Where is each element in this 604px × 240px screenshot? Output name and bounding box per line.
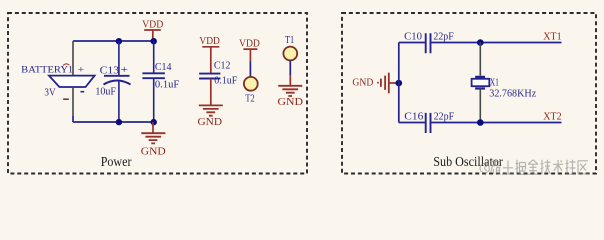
wire bottom rail (73, 121, 154, 123)
node junction C13 bottom (116, 119, 122, 125)
svg-text:32.768KHz: 32.768KHz (489, 88, 536, 100)
capacitor C12 lead bottom red (210, 79, 212, 106)
capacitor C14 lead top (153, 41, 155, 73)
ground GND (C12) (198, 105, 223, 128)
testpoint T1 pad (283, 47, 297, 61)
wire VDD to T2 (249, 62, 251, 78)
power port VDD (T2) (239, 38, 260, 62)
svg-text:T1: T1 (285, 35, 294, 46)
wire top right (431, 42, 561, 44)
svg-text:XT2: XT2 (543, 110, 561, 122)
svg-text:VDD: VDD (199, 35, 220, 47)
svg-text:C10: C10 (404, 30, 422, 42)
wire bottom right (431, 122, 561, 124)
crystal X1 body (472, 79, 490, 86)
crystal X1 pin bottom (479, 89, 481, 123)
sheet box Sub Oscillator (342, 13, 596, 174)
svg-text:GND: GND (141, 146, 166, 158)
svg-text:BATTERY1: BATTERY1 (21, 64, 73, 74)
svg-text:C14: C14 (155, 61, 172, 73)
svg-text:10uF: 10uF (95, 85, 116, 97)
svg-text:GND: GND (278, 96, 304, 108)
capacitor C14 lead bottom (153, 79, 155, 123)
svg-text:22pF: 22pF (433, 30, 453, 42)
svg-text:X1: X1 (490, 76, 499, 88)
capacitor C16 plates (426, 113, 431, 133)
svg-text:22pF: 22pF (434, 111, 454, 123)
svg-text:GND: GND (198, 116, 223, 128)
capacitor C12 plates (199, 74, 220, 79)
crystal X1 plates (475, 77, 485, 89)
wire left vertical (398, 43, 400, 123)
red squiggle marker (63, 64, 69, 66)
wire top left (399, 42, 425, 44)
svg-text:C12: C12 (214, 60, 231, 72)
battery pin bottom (72, 87, 74, 116)
ground GND (T1) (278, 76, 304, 108)
node junction crystal top (477, 39, 484, 46)
svg-text:Power: Power (101, 155, 132, 170)
battery G1 body (49, 76, 95, 87)
capacitor C10 plates (426, 33, 431, 53)
ground GND (main) (141, 122, 166, 158)
power port VDD (main) (142, 18, 163, 41)
capacitor C13 plates (104, 75, 130, 77)
power port GND (bar style) (352, 73, 398, 94)
battery second plate dash (63, 98, 69, 100)
wire bottom left (399, 122, 425, 124)
svg-text:+: + (121, 65, 129, 76)
sheet box Power (8, 13, 307, 174)
wire battery to bottom rail (72, 116, 74, 122)
svg-text:Sub Oscillator: Sub Oscillator (433, 155, 503, 170)
svg-text:VDD: VDD (239, 38, 260, 50)
capacitor C13 lead bottom (118, 81, 120, 122)
svg-text:0.1uF: 0.1uF (214, 74, 237, 86)
node junction C14/VDD top (151, 38, 157, 44)
battery G1 pin top (72, 41, 74, 76)
svg-text:GND: GND (352, 77, 373, 89)
crystal X1 pin top (479, 43, 481, 76)
svg-text:VDD: VDD (142, 18, 163, 30)
svg-text:T2: T2 (245, 93, 254, 104)
svg-text:3V: 3V (44, 87, 56, 98)
node junction GND (396, 80, 403, 87)
wire T1 to ground (289, 60, 291, 75)
testpoint T2 pad (244, 77, 258, 91)
power port VDD (C12) (199, 35, 220, 73)
battery minus marker (81, 91, 85, 93)
wire top rail (73, 40, 154, 42)
svg-text:0.1uF: 0.1uF (155, 78, 179, 90)
svg-text:XT1: XT1 (543, 30, 561, 42)
node junction C13 top (116, 38, 122, 44)
node junction GND bottom (151, 119, 157, 125)
node junction crystal bottom (477, 119, 484, 126)
svg-text:+: + (78, 65, 85, 75)
capacitor C14 plates (142, 73, 165, 78)
svg-text:C16: C16 (404, 111, 424, 123)
capacitor C13 lead top (118, 41, 120, 75)
svg-text:C13: C13 (100, 65, 120, 77)
watermark (480, 160, 589, 175)
